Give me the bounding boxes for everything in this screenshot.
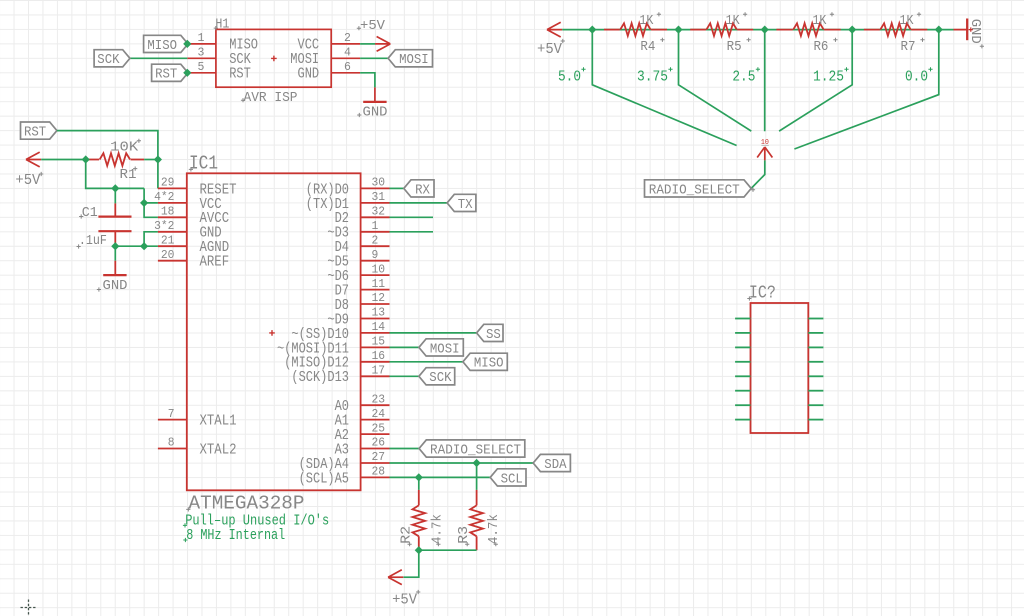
gnd lead (H1) bbox=[374, 87, 376, 102]
IC1 symbol origin cross bbox=[269, 330, 275, 336]
svg-text:31: 31 bbox=[372, 191, 386, 204]
svg-text:SCK: SCK bbox=[97, 52, 120, 68]
svg-text:MISO: MISO bbox=[147, 38, 177, 54]
resistor R5 1K bbox=[690, 29, 706, 31]
junction dot R1 right bbox=[154, 155, 162, 163]
resistor R7 1K bbox=[864, 29, 880, 31]
wire pin15 to MOSI bbox=[390, 346, 419, 348]
net flag RST (mid-left) bbox=[21, 122, 57, 139]
junction dot SCL/R2 bbox=[415, 473, 423, 481]
IC1 pin 24 A1 bbox=[361, 419, 390, 421]
svg-text:14: 14 bbox=[372, 321, 386, 334]
svg-text:+5V: +5V bbox=[15, 172, 40, 189]
svg-text:3.75: 3.75 bbox=[637, 69, 668, 86]
connector H1 body bbox=[216, 29, 331, 87]
svg-text:AREF: AREF bbox=[200, 255, 230, 271]
svg-text:28: 28 bbox=[372, 466, 386, 479]
svg-text:4.7k: 4.7k bbox=[486, 514, 502, 544]
resistor R4 1K bbox=[604, 29, 620, 31]
IC1 pin 8 XTAL2 bbox=[158, 448, 187, 450]
svg-text:26: 26 bbox=[372, 437, 386, 450]
svg-text:RX: RX bbox=[415, 182, 430, 198]
IC1 pin 20 AREF bbox=[158, 260, 187, 262]
wire branch down to VCC pin bbox=[144, 188, 158, 203]
IC1 pin 11 D7 bbox=[361, 289, 390, 291]
supply +5V (ladder) arrow bbox=[547, 22, 562, 37]
net flag SCL bbox=[490, 469, 526, 486]
resistor R2 4.7k bbox=[418, 477, 420, 490]
junction dot ladder 0.0 bbox=[935, 26, 943, 34]
resistor R3 4.7k bbox=[476, 463, 478, 490]
H1 pin 6 bbox=[331, 72, 360, 74]
wire ladder drop 3.75 bbox=[679, 30, 752, 132]
wire pin32 stub bbox=[390, 216, 434, 218]
svg-text:2.5: 2.5 bbox=[732, 69, 755, 86]
IC1 pin 2 D4 bbox=[361, 245, 390, 247]
svg-text:H1: H1 bbox=[215, 17, 229, 33]
gnd lead (C1) bbox=[114, 261, 116, 275]
net flag RX bbox=[404, 180, 434, 197]
IC? left pin 8 bbox=[735, 419, 750, 421]
IC1 pin 10 ~D6 bbox=[361, 274, 390, 276]
svg-text:R1: R1 bbox=[120, 167, 137, 183]
net flag SS bbox=[477, 324, 503, 341]
svg-text:R2: R2 bbox=[398, 526, 414, 544]
net flag SDA bbox=[533, 454, 570, 471]
svg-text:RST: RST bbox=[24, 125, 46, 141]
junction dot VCC node bbox=[140, 199, 148, 207]
net flag MOSI (H1 pin4) bbox=[388, 50, 432, 67]
H1 pin 3 bbox=[187, 57, 216, 59]
wire ladder drop 0.0 bbox=[794, 30, 938, 149]
IC1 pin 12 D8 bbox=[361, 303, 390, 305]
junction dot AGND node bbox=[140, 242, 148, 250]
net flag SCK (H1 pin3) bbox=[94, 50, 130, 67]
origin crosshair bbox=[21, 600, 37, 616]
wire H1 pin2 to +5V bbox=[360, 43, 375, 45]
wire pin1 stub bbox=[390, 231, 434, 233]
ground GND (H1) bbox=[363, 101, 386, 103]
svg-text:20: 20 bbox=[161, 249, 175, 262]
IC1 pin 21 AGND bbox=[158, 245, 187, 247]
svg-text:+5V: +5V bbox=[360, 18, 386, 34]
svg-text:1: 1 bbox=[372, 220, 379, 233]
resistor R1 10K bbox=[86, 159, 99, 161]
net flag MISO (H1 pin1) bbox=[144, 35, 188, 52]
svg-text:4*2: 4*2 bbox=[154, 191, 174, 204]
svg-text:10K: 10K bbox=[110, 139, 139, 155]
svg-text:29: 29 bbox=[161, 177, 175, 190]
IC? left pin 1 bbox=[735, 318, 750, 320]
svg-text:SCK: SCK bbox=[429, 370, 452, 386]
svg-text:R7: R7 bbox=[901, 39, 916, 55]
IC? right pin 14 bbox=[808, 346, 823, 348]
svg-text:32: 32 bbox=[372, 206, 386, 219]
svg-text:RST: RST bbox=[229, 67, 251, 83]
IC? right pin 9 bbox=[808, 419, 823, 421]
svg-text:1.25: 1.25 bbox=[813, 69, 844, 86]
wire ladder drop 1.25 bbox=[779, 30, 852, 132]
svg-text:10: 10 bbox=[372, 263, 386, 276]
ladder rail wire bbox=[562, 29, 953, 31]
svg-text:C1: C1 bbox=[82, 205, 98, 221]
svg-text:2: 2 bbox=[344, 32, 351, 45]
svg-text:R5: R5 bbox=[727, 39, 742, 55]
svg-text:6: 6 bbox=[344, 61, 351, 74]
IC1 pin 32 D2 bbox=[361, 216, 390, 218]
svg-text:0.0: 0.0 bbox=[905, 69, 928, 86]
svg-text:TX: TX bbox=[458, 197, 473, 213]
svg-text:R3: R3 bbox=[456, 526, 472, 544]
IC1 pin 16 (MISO)D12 bbox=[361, 361, 390, 363]
ground GND (C1) bbox=[103, 274, 126, 276]
svg-text:+5V: +5V bbox=[392, 592, 417, 609]
svg-text:RST: RST bbox=[155, 67, 177, 83]
IC1 pin 3*2 GND bbox=[158, 231, 187, 233]
IC1 pin 27 (SDA)A4 bbox=[361, 462, 390, 464]
svg-text:SCL: SCL bbox=[501, 471, 523, 487]
supply +5V (bottom) arrow bbox=[388, 570, 403, 585]
wire antenna to RADIO_SELECT flag bbox=[751, 160, 765, 188]
wire down to +5V (bottom) bbox=[404, 550, 419, 577]
svg-text:.1uF: .1uF bbox=[79, 233, 107, 249]
net flag RADIO_SELECT (IC1) bbox=[419, 440, 525, 457]
IC? left pin 5 bbox=[735, 375, 750, 377]
gnd lead (ladder) bbox=[954, 29, 968, 31]
IC1 pin 13 ~D9 bbox=[361, 318, 390, 320]
junction dot R2 bottom bbox=[415, 546, 423, 554]
IC1 pin 31 (TX)D1 bbox=[361, 202, 390, 204]
net flag TX bbox=[447, 194, 476, 211]
H1 symbol origin cross bbox=[271, 56, 277, 62]
svg-text:21: 21 bbox=[161, 234, 175, 247]
svg-text:XTAL1: XTAL1 bbox=[200, 414, 237, 430]
svg-text:AVR ISP: AVR ISP bbox=[244, 90, 298, 106]
wire VCC node down to AVCC pin bbox=[144, 203, 158, 217]
IC1 pin 1 ~D3 bbox=[361, 231, 390, 233]
wire C1 bottom to ground bbox=[114, 246, 116, 261]
svg-text:13: 13 bbox=[372, 307, 386, 320]
svg-text:5: 5 bbox=[198, 61, 205, 74]
wire AGND node bbox=[115, 245, 158, 247]
IC1 pin 18 AVCC bbox=[158, 216, 187, 218]
IC? left pin 7 bbox=[735, 404, 750, 406]
svg-text:15: 15 bbox=[372, 336, 386, 349]
svg-text:GND: GND bbox=[298, 67, 320, 83]
net flag MISO (IC1) bbox=[463, 353, 507, 370]
wire H1 pin6 to GND bbox=[360, 73, 375, 88]
IC? left pin 4 bbox=[735, 361, 750, 363]
svg-text:GND: GND bbox=[103, 278, 128, 294]
svg-text:4.7k: 4.7k bbox=[430, 514, 446, 544]
IC1 pin 25 A2 bbox=[361, 433, 390, 435]
net flag MOSI (IC1) bbox=[419, 339, 463, 356]
junction dot H1 pin5 bbox=[183, 69, 191, 77]
svg-text:2: 2 bbox=[372, 234, 379, 247]
svg-text:R4: R4 bbox=[640, 39, 655, 55]
junction dot ladder 1.25 bbox=[848, 26, 856, 34]
ground GND (rotated) bbox=[966, 19, 968, 41]
wire pin31 to TX bbox=[390, 202, 448, 204]
svg-text:RADIO_SELECT: RADIO_SELECT bbox=[430, 442, 521, 458]
wire SCK flag to H1 pin3 bbox=[130, 57, 187, 59]
svg-text:11: 11 bbox=[372, 278, 386, 291]
wire AGND node up to GND pin bbox=[144, 232, 158, 246]
IC1 pin 30 (RX)D0 bbox=[361, 187, 390, 189]
IC? right pin 16 bbox=[808, 318, 823, 320]
svg-text:MOSI: MOSI bbox=[399, 52, 429, 68]
junction dot C1 bottom bbox=[111, 242, 119, 250]
svg-text:7: 7 bbox=[168, 408, 175, 421]
H1 pin 4 bbox=[331, 57, 360, 59]
op IC? body bbox=[751, 303, 809, 433]
supply +5V (H1) arrow bbox=[375, 37, 390, 52]
svg-text:SS: SS bbox=[486, 327, 501, 343]
svg-text:3*2: 3*2 bbox=[154, 220, 174, 233]
IC1 pin 26 A3 bbox=[361, 448, 390, 450]
wire ladder drop 5.0 bbox=[592, 30, 736, 146]
IC? right pin 12 bbox=[808, 375, 823, 377]
H1 pin 5 bbox=[187, 72, 216, 74]
wire pin30 to RX bbox=[390, 187, 404, 189]
junction dot ladder 2.5 bbox=[761, 26, 769, 34]
svg-text:1K: 1K bbox=[900, 13, 914, 29]
wire RST to IC1 RESET bbox=[57, 131, 158, 189]
IC1 pin 29 RESET bbox=[158, 187, 187, 189]
wire +5V to R1 bbox=[41, 159, 85, 161]
svg-text:8 MHz Internal: 8 MHz Internal bbox=[186, 527, 285, 544]
wire pin17 to SCK bbox=[390, 375, 419, 377]
H1 pin 1 bbox=[187, 43, 216, 45]
svg-text:1K: 1K bbox=[639, 13, 653, 29]
svg-text:3: 3 bbox=[198, 47, 205, 60]
svg-text:IC?: IC? bbox=[749, 284, 776, 304]
svg-text:12: 12 bbox=[372, 292, 386, 305]
wire R2-R3 bottoms bbox=[419, 549, 477, 551]
IC1 pin 14 ~(SS)D10 bbox=[361, 332, 390, 334]
svg-text:(SCK)D13: (SCK)D13 bbox=[291, 370, 349, 386]
IC? right pin 10 bbox=[808, 404, 823, 406]
H1 pin 2 bbox=[331, 43, 360, 45]
svg-text:30: 30 bbox=[372, 177, 386, 190]
IC1 pin 15 ~(MOSI)D11 bbox=[361, 346, 390, 348]
resistor R6 1K bbox=[776, 29, 792, 31]
svg-text:18: 18 bbox=[161, 206, 175, 219]
junction dot ladder 5.0 bbox=[588, 26, 596, 34]
wire ladder drop 2.5 bbox=[764, 30, 766, 132]
junction dot ladder 3.75 bbox=[674, 26, 682, 34]
svg-text:1: 1 bbox=[198, 32, 205, 45]
svg-text:+5V: +5V bbox=[537, 41, 562, 58]
svg-text:8: 8 bbox=[168, 437, 175, 450]
svg-text:(SCL)A5: (SCL)A5 bbox=[299, 471, 349, 487]
svg-text:SDA: SDA bbox=[544, 457, 567, 473]
junction dot C1 top bbox=[111, 184, 119, 192]
antenna select arrow (pin 10) bbox=[757, 147, 772, 160]
svg-text:24: 24 bbox=[372, 408, 386, 421]
svg-text:IC1: IC1 bbox=[189, 153, 218, 175]
svg-text:MOSI: MOSI bbox=[430, 341, 460, 357]
junction dot R1 left bbox=[82, 155, 90, 163]
IC? left pin 6 bbox=[735, 390, 750, 392]
svg-text:9: 9 bbox=[372, 249, 379, 262]
IC1 pin 7 XTAL1 bbox=[158, 419, 187, 421]
net flag RADIO_SELECT (top) bbox=[645, 180, 752, 197]
svg-text:R6: R6 bbox=[813, 39, 828, 55]
svg-text:ATMEGA328P: ATMEGA328P bbox=[189, 493, 305, 515]
wire R1 right to RST net bbox=[144, 159, 158, 161]
IC? right pin 15 bbox=[808, 332, 823, 334]
IC? left pin 2 bbox=[735, 332, 750, 334]
wire pin27 to SDA bbox=[390, 462, 534, 464]
wire pin28 to SCL bbox=[390, 476, 491, 478]
junction dot H1 pin1 bbox=[183, 40, 191, 48]
capacitor C1 .1uF bbox=[114, 188, 116, 203]
svg-text:25: 25 bbox=[372, 422, 386, 435]
svg-text:GND: GND bbox=[363, 105, 388, 121]
svg-text:16: 16 bbox=[372, 350, 386, 363]
svg-text:GND: GND bbox=[967, 19, 983, 44]
svg-text:27: 27 bbox=[372, 451, 386, 464]
IC1 pin 4*2 VCC bbox=[158, 202, 187, 204]
IC? right pin 11 bbox=[808, 390, 823, 392]
svg-text:17: 17 bbox=[372, 365, 386, 378]
IC? left pin 3 bbox=[735, 346, 750, 348]
svg-text:23: 23 bbox=[372, 393, 386, 406]
wire H1 pin4 to MOSI flag bbox=[360, 57, 388, 59]
svg-text:MISO: MISO bbox=[474, 356, 504, 372]
junction dot SDA/R3 bbox=[473, 459, 481, 467]
svg-text:5.0: 5.0 bbox=[558, 69, 581, 86]
IC1 pin 28 (SCL)A5 bbox=[361, 476, 390, 478]
net flag RST (H1 pin5) bbox=[152, 64, 188, 81]
svg-text:1K: 1K bbox=[726, 13, 740, 29]
IC1 pin 9 ~D5 bbox=[361, 260, 390, 262]
supply +5V (mid-left) arrow bbox=[26, 152, 41, 167]
svg-text:4: 4 bbox=[344, 47, 351, 60]
svg-text:XTAL2: XTAL2 bbox=[200, 442, 237, 458]
net flag SCK (IC1) bbox=[419, 368, 455, 385]
IC? right pin 13 bbox=[808, 361, 823, 363]
IC1 pin 23 A0 bbox=[361, 404, 390, 406]
wire pin26 to RADIO_SELECT bbox=[390, 448, 420, 450]
wire +5V branch down to C1/VCC bbox=[86, 160, 144, 189]
wire pin16 to MISO bbox=[390, 361, 463, 363]
IC1 pin 17 (SCK)D13 bbox=[361, 375, 390, 377]
svg-text:RADIO_SELECT: RADIO_SELECT bbox=[649, 182, 740, 198]
op IC1 ATMEGA328P body bbox=[187, 173, 361, 490]
wire pin14 to SS bbox=[390, 332, 477, 334]
svg-text:1K: 1K bbox=[812, 13, 826, 29]
